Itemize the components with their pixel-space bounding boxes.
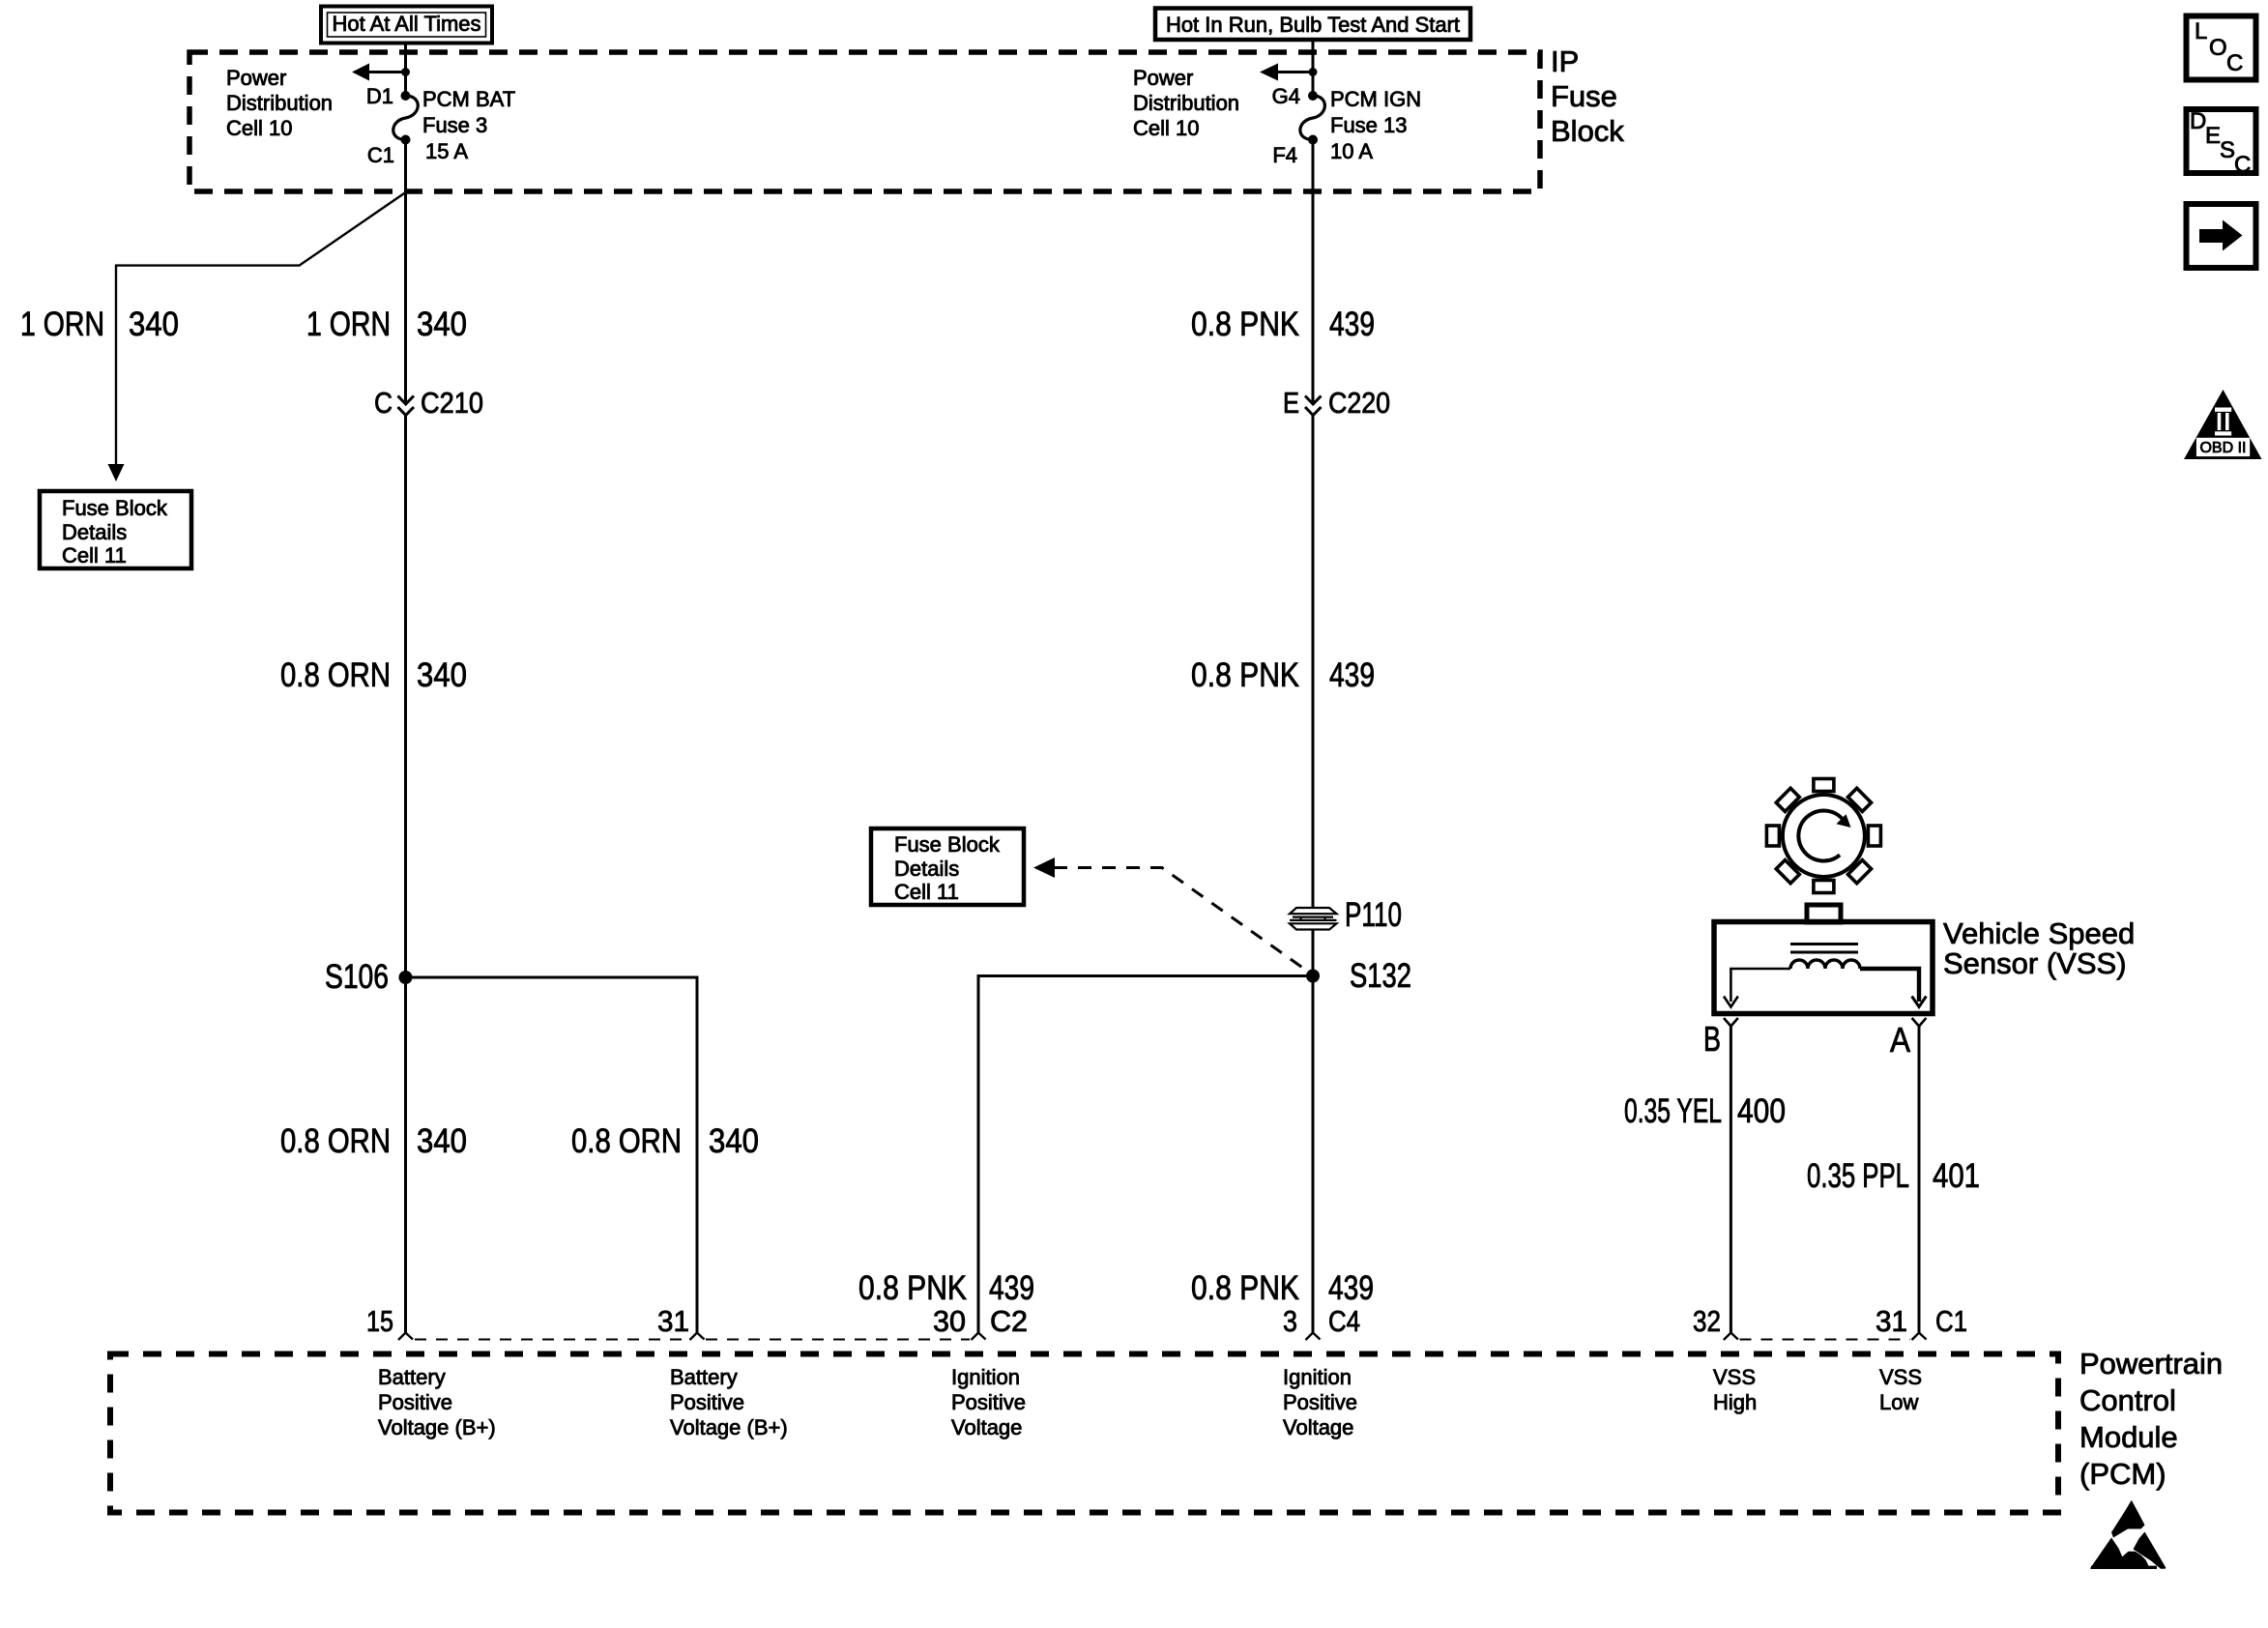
- svg-text:Hot At All Times: Hot At All Times: [332, 12, 480, 36]
- svg-text:Positive: Positive: [378, 1390, 452, 1414]
- svg-text:400: 400: [1737, 1092, 1786, 1130]
- svg-text:0.8 ORN: 0.8 ORN: [571, 1122, 682, 1160]
- label: Battery Positive Voltage (B+) pin 15: [378, 1365, 496, 1439]
- svg-text:C1: C1: [1935, 1304, 1967, 1338]
- svg-text:Fuse Block: Fuse Block: [62, 496, 168, 520]
- svg-text:C220: C220: [1328, 386, 1390, 420]
- wire: 0.35 YEL 400 VSS high: [1730, 1027, 1732, 1333]
- pin 31: [657, 1304, 705, 1340]
- svg-text:0.8 PNK: 0.8 PNK: [1191, 656, 1299, 694]
- margin icon: DESC box: [2187, 108, 2256, 178]
- svg-text:C4: C4: [1328, 1304, 1360, 1338]
- svg-text:Fuse: Fuse: [1551, 79, 1617, 113]
- svg-text:1 ORN: 1 ORN: [20, 305, 104, 343]
- svg-text:Sensor (VSS): Sensor (VSS): [1943, 946, 2127, 980]
- connector C210 pin C: [374, 386, 483, 420]
- svg-text:D1: D1: [366, 84, 393, 108]
- wire: S132 to pin 3 C4: [1312, 976, 1315, 1333]
- label: Battery Positive Voltage (B+) pin 31: [670, 1365, 788, 1439]
- VSS pickup coil: [1790, 960, 1860, 969]
- wire: connector C1 pin tie dashed line 32-31: [1740, 1339, 1911, 1341]
- svg-text:Fuse 13: Fuse 13: [1330, 113, 1408, 137]
- label: 1 ORN 340 (main battery wire): [306, 305, 467, 343]
- svg-text:Cell 10: Cell 10: [226, 116, 292, 140]
- wire: battery feed drop from Hot At All Times: [404, 44, 407, 97]
- svg-text:Fuse 3: Fuse 3: [422, 113, 487, 137]
- svg-text:Positive: Positive: [1283, 1390, 1357, 1414]
- label: Power Distribution Cell 10 (left): [226, 66, 333, 140]
- label: Power Distribution Cell 10 (right): [1133, 66, 1239, 140]
- node: Hot In Run Bulb Test And Start feed box: [1155, 9, 1470, 41]
- svg-text:Voltage: Voltage: [1283, 1415, 1353, 1439]
- label: 0.8 PNK 439 (above P110): [1191, 656, 1375, 694]
- wire: connector C2 pin tie dashed line 15-31: [415, 1339, 688, 1341]
- svg-text:Module: Module: [2079, 1420, 2178, 1454]
- fuse: PCM BAT Fuse 3 15 A: [393, 91, 419, 145]
- svg-text:Powertrain: Powertrain: [2079, 1347, 2223, 1381]
- wire: 0.35 PPL 401 VSS low: [1918, 1027, 1921, 1333]
- svg-text:L: L: [2195, 18, 2207, 44]
- svg-text:O: O: [2209, 35, 2227, 61]
- pin 30 C2: [933, 1304, 1028, 1340]
- margin icon: OBD II triangle: [2184, 390, 2262, 459]
- terminal A stub: [1890, 1018, 1926, 1060]
- svg-text:(PCM): (PCM): [2079, 1457, 2166, 1491]
- svg-text:Positive: Positive: [951, 1390, 1026, 1414]
- svg-text:10 A: 10 A: [1330, 139, 1373, 163]
- svg-text:Low: Low: [1879, 1390, 1918, 1414]
- label: 0.8 ORN 340 (above S106): [280, 656, 467, 694]
- svg-text:C: C: [2226, 50, 2243, 76]
- svg-text:340: 340: [129, 305, 179, 343]
- label: 0.8 ORN 340 (pin 15 leg): [280, 1122, 467, 1160]
- svg-text:Positive: Positive: [670, 1390, 744, 1414]
- wire: dashed reference arrow from S132 to Fuse Block Details: [1033, 858, 1308, 972]
- svg-text:B: B: [1703, 1019, 1721, 1059]
- pin 15: [366, 1304, 413, 1340]
- svg-text:0.8 PNK: 0.8 PNK: [1191, 305, 1299, 343]
- label: PCM IGN Fuse 13 10 A: [1330, 87, 1421, 163]
- svg-text:OBD II: OBD II: [2199, 440, 2246, 456]
- svg-text:High: High: [1713, 1390, 1757, 1414]
- svg-text:15 A: 15 A: [425, 139, 468, 163]
- fuse: PCM IGN Fuse 13 10 A: [1300, 91, 1325, 145]
- label: 0.8 PNK 439 (pin 30 leg): [858, 1269, 1034, 1307]
- svg-text:340: 340: [417, 1122, 467, 1160]
- svg-text:439: 439: [1328, 1269, 1374, 1307]
- svg-text:C: C: [2234, 152, 2251, 178]
- connector P110 grommet: [1290, 896, 1402, 934]
- node: Hot At All Times feed box: [321, 7, 492, 44]
- splice S106: [325, 958, 413, 996]
- svg-text:340: 340: [417, 656, 467, 694]
- svg-text:Voltage (B+): Voltage (B+): [670, 1415, 788, 1439]
- label: IP Fuse Block: [1551, 44, 1624, 148]
- margin icon: LOC box: [2187, 16, 2256, 80]
- wire: S132 branch to pin 30 C2: [978, 976, 1313, 1333]
- svg-text:Details: Details: [62, 520, 127, 544]
- svg-text:Cell 11: Cell 11: [62, 543, 127, 567]
- pin 32: [1693, 1304, 1738, 1340]
- wire: 0.8 PNK 439 from C220 to P110: [1312, 416, 1315, 908]
- label: VSS High pin 32: [1713, 1365, 1757, 1414]
- label: 1 ORN 340 (branch): [20, 305, 179, 343]
- svg-text:Power: Power: [1133, 66, 1193, 90]
- wire: 0.8 ORN 340 from C210 to S106: [404, 416, 407, 1333]
- svg-text:S132: S132: [1350, 957, 1411, 995]
- wire: P110 to S132: [1312, 929, 1315, 976]
- svg-text:Voltage: Voltage: [951, 1415, 1022, 1439]
- svg-text:31: 31: [1875, 1304, 1907, 1338]
- label: 0.8 ORN 340 (pin 31 leg): [571, 1122, 759, 1160]
- svg-text:0.35 YEL: 0.35 YEL: [1624, 1092, 1722, 1130]
- svg-text:0.35 PPL: 0.35 PPL: [1807, 1157, 1909, 1195]
- svg-text:340: 340: [417, 305, 467, 343]
- svg-text:Power: Power: [226, 66, 286, 90]
- pin 3 C4: [1283, 1304, 1360, 1340]
- svg-text:C210: C210: [421, 386, 483, 420]
- margin icon: next-page arrow box: [2187, 204, 2256, 268]
- label: Ignition Positive Voltage pin 3: [1283, 1365, 1357, 1439]
- svg-text:E: E: [2205, 123, 2221, 149]
- svg-text:Details: Details: [894, 857, 959, 881]
- IP Fuse Block dashed boundary: [189, 52, 1540, 191]
- splice S132: [1306, 957, 1411, 995]
- svg-text:Distribution: Distribution: [226, 91, 333, 115]
- svg-text:3: 3: [1283, 1304, 1297, 1338]
- label: Powertrain Control Module (PCM): [2079, 1347, 2223, 1491]
- svg-text:0.8 PNK: 0.8 PNK: [858, 1269, 967, 1307]
- node: Fuse Block Details Cell 11 (left box): [40, 491, 191, 568]
- label: 0.35 PPL 401: [1807, 1157, 1980, 1195]
- svg-text:Battery: Battery: [670, 1365, 738, 1389]
- svg-text:Control: Control: [2079, 1383, 2176, 1417]
- wire: 0.8 PNK 439 from F4 to C220: [1312, 140, 1315, 405]
- svg-text:439: 439: [1329, 305, 1375, 343]
- svg-text:Distribution: Distribution: [1133, 91, 1239, 115]
- svg-text:Cell 10: Cell 10: [1133, 116, 1199, 140]
- label: VSS Low pin 31: [1879, 1365, 1922, 1414]
- sensor: Vehicle Speed Sensor (VSS): [1714, 905, 2135, 1014]
- svg-text:0.8 ORN: 0.8 ORN: [280, 656, 391, 694]
- svg-text:PCM BAT: PCM BAT: [422, 87, 515, 111]
- wire: coil to terminal B internal: [1724, 969, 1790, 1007]
- svg-text:1 ORN: 1 ORN: [306, 305, 391, 343]
- svg-text:439: 439: [989, 1269, 1034, 1307]
- svg-text:PCM IGN: PCM IGN: [1330, 87, 1421, 111]
- svg-text:VSS: VSS: [1713, 1365, 1756, 1389]
- label: 0.8 PNK 439 (pin 3 leg): [1191, 1269, 1374, 1307]
- svg-text:E: E: [1283, 386, 1299, 420]
- wire: coil to terminal A internal: [1860, 969, 1926, 1007]
- wire: power distribution branch arrow (right): [1260, 64, 1318, 81]
- svg-text:C1: C1: [367, 143, 394, 167]
- svg-text:C2: C2: [990, 1304, 1028, 1338]
- wire: power distribution branch arrow (left): [352, 64, 410, 81]
- svg-text:0.8 PNK: 0.8 PNK: [1191, 1269, 1299, 1307]
- svg-text:Block: Block: [1551, 114, 1624, 148]
- svg-text:401: 401: [1933, 1157, 1980, 1195]
- svg-text:32: 32: [1693, 1304, 1721, 1338]
- svg-text:340: 340: [709, 1122, 759, 1160]
- VSS pickup core lines: [1790, 945, 1858, 953]
- svg-text:0.8 ORN: 0.8 ORN: [280, 1122, 391, 1160]
- terminal B stub: [1703, 1018, 1738, 1059]
- connector C220 pin E: [1283, 386, 1390, 420]
- pin 31 C1: [1875, 1304, 1967, 1340]
- wire: ignition feed drop from Hot In Run box: [1312, 40, 1315, 96]
- svg-text:Fuse Block: Fuse Block: [894, 832, 1001, 857]
- rotation arrow inside gear: [1798, 810, 1844, 860]
- wire: connector C2 pin tie dashed line 31-30: [706, 1339, 970, 1341]
- svg-text:IP: IP: [1551, 44, 1579, 78]
- svg-text:G4: G4: [1272, 84, 1300, 108]
- svg-text:C: C: [374, 386, 393, 420]
- label: PCM BAT Fuse 3 15 A: [422, 87, 515, 163]
- svg-text:30: 30: [933, 1304, 966, 1338]
- wire: ORN 340 battery feed C1 to C210: [404, 140, 407, 405]
- svg-text:Voltage (B+): Voltage (B+): [378, 1415, 496, 1439]
- svg-text:Ignition: Ignition: [1283, 1365, 1352, 1389]
- svg-text:Ignition: Ignition: [951, 1365, 1020, 1389]
- ESD sensitive device symbol: [2090, 1500, 2166, 1569]
- svg-text:A: A: [1890, 1020, 1910, 1060]
- wire: branch to Fuse Block Details (left) with arrow: [108, 192, 406, 481]
- svg-text:Battery: Battery: [378, 1365, 446, 1389]
- svg-text:S106: S106: [325, 958, 389, 996]
- VSS reluctor gear wheel: [1766, 779, 1880, 893]
- label: 0.8 PNK 439 (below fuse 13): [1191, 305, 1375, 343]
- svg-text:Vehicle Speed: Vehicle Speed: [1943, 916, 2135, 950]
- svg-text:15: 15: [366, 1304, 393, 1338]
- svg-text:439: 439: [1329, 656, 1375, 694]
- svg-text:F4: F4: [1272, 143, 1297, 167]
- node: Fuse Block Details Cell 11 (middle box): [871, 829, 1024, 905]
- label: 0.35 YEL 400: [1624, 1092, 1786, 1130]
- wire: S106 branch to pin 31: [406, 977, 698, 1332]
- svg-text:Cell 11: Cell 11: [894, 880, 959, 904]
- svg-text:VSS: VSS: [1879, 1365, 1922, 1389]
- PCM dashed boundary: [110, 1354, 2058, 1513]
- svg-text:31: 31: [657, 1304, 689, 1338]
- svg-text:Hot In Run, Bulb Test And Star: Hot In Run, Bulb Test And Start: [1166, 13, 1460, 37]
- svg-text:P110: P110: [1345, 896, 1402, 934]
- svg-text:D: D: [2190, 108, 2206, 134]
- svg-text:S: S: [2220, 137, 2235, 163]
- label: Ignition Positive Voltage pin 30: [951, 1365, 1026, 1439]
